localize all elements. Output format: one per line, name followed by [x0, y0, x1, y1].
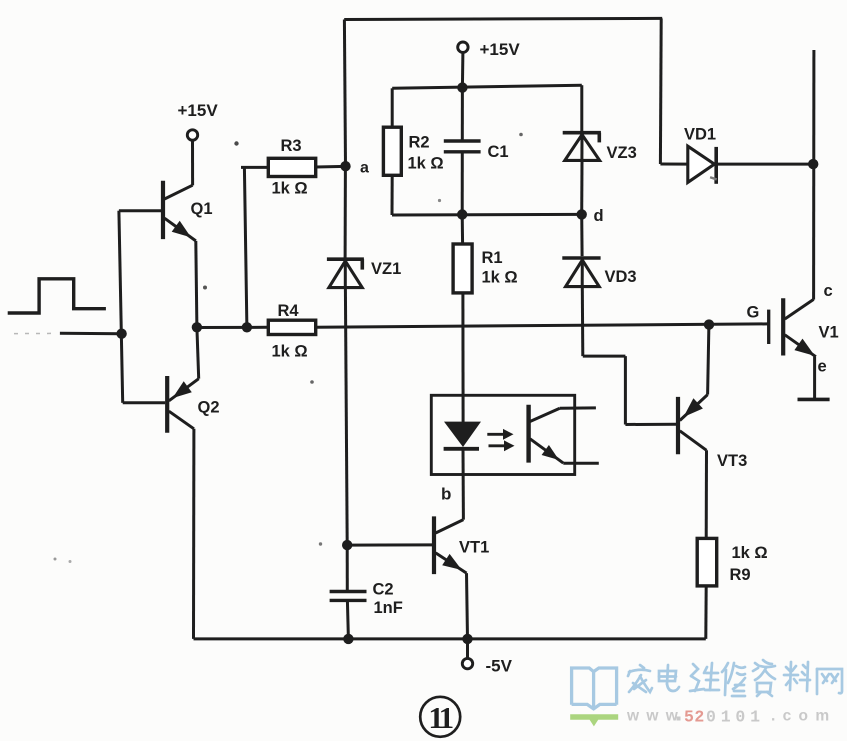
wire bus left segment	[197, 326, 269, 329]
svg-text:C1: C1	[488, 143, 509, 161]
node junction VT1/-5V on rail	[462, 634, 472, 644]
svg-text:R4: R4	[278, 302, 300, 320]
zener diode VZ1	[327, 259, 364, 287]
svg-text:. c o m: . c o m	[771, 708, 831, 725]
svg-text:b: b	[441, 485, 451, 504]
wire R1 bottom across bus to optocoupler	[461, 293, 464, 422]
speck	[234, 141, 238, 145]
svg-text:R2: R2	[409, 134, 430, 152]
speck	[519, 133, 523, 137]
wire C1 top	[461, 88, 464, 141]
wire R1 top	[461, 215, 464, 246]
wire bottom rail	[194, 637, 706, 640]
node junction Q1/Q2 on bus	[192, 322, 202, 332]
label R4	[278, 302, 300, 320]
wire C2 top	[346, 545, 349, 591]
transistor Q1	[119, 181, 196, 241]
wire R2 bottom	[391, 175, 394, 216]
wire R9 bottom to rail	[704, 585, 707, 639]
wire top horizontal rail	[344, 18, 662, 19]
label R3 value 1k ohm	[272, 180, 308, 198]
label VZ1	[371, 260, 401, 278]
wire VD3 path vertical	[624, 356, 627, 424]
label VZ3	[607, 144, 637, 162]
figure number circled 11	[420, 697, 460, 737]
watermark character wang	[817, 669, 842, 694]
wire VZ1 down to C2 node	[345, 289, 347, 545]
speck	[319, 542, 322, 545]
wire VT1 base from C2 node	[347, 543, 432, 546]
label G	[747, 304, 760, 322]
label e	[818, 358, 827, 376]
ground V1 emitter	[798, 398, 830, 402]
resistor R4	[268, 320, 315, 334]
capacitor C2	[330, 592, 367, 601]
wire +15V horizontal rail	[392, 85, 582, 88]
svg-text:R9: R9	[730, 566, 751, 584]
watermark character liao	[784, 662, 810, 691]
svg-text:VZ3: VZ3	[607, 144, 637, 162]
watermark book icon blue	[572, 668, 617, 709]
wire block bottom horizontal	[392, 213, 582, 217]
svg-text:VD1: VD1	[684, 126, 716, 144]
wire VD3 path horizontal	[583, 355, 626, 358]
svg-text:1k Ω: 1k Ω	[408, 155, 444, 173]
svg-text:1nF: 1nF	[374, 599, 403, 617]
label R1	[482, 249, 503, 267]
wire VD3 down across bus	[581, 287, 585, 356]
resistor R9	[697, 538, 717, 586]
wire VZ3 bottom to node d	[580, 162, 583, 215]
zener diode VZ3	[563, 133, 601, 161]
label a	[360, 159, 369, 176]
wire VT3 collector up to bus	[708, 325, 709, 395]
watermark character zi	[753, 660, 775, 696]
svg-text:1k Ω: 1k Ω	[272, 343, 308, 361]
label R9 value 1k ohm	[732, 544, 768, 562]
optocoupler light arrow 1	[487, 429, 513, 440]
label R3	[281, 137, 302, 155]
input pulse waveform	[8, 279, 106, 313]
label R9	[730, 566, 751, 584]
svg-text:-5V: -5V	[486, 657, 513, 676]
svg-text:1k Ω: 1k Ω	[482, 269, 518, 287]
svg-text:+15V: +15V	[178, 101, 219, 120]
node junction C2/VT1 base	[342, 540, 352, 550]
node junction C2 on rail	[343, 634, 353, 644]
wire +15V stem	[461, 53, 465, 88]
node junction R4 left	[242, 322, 252, 332]
svg-text:VT1: VT1	[459, 539, 489, 557]
speck	[54, 558, 57, 561]
label -5V	[486, 657, 513, 676]
wire VD1 cathode to right vertical	[718, 163, 814, 166]
svg-text:VZ1: VZ1	[371, 260, 401, 278]
wire VD1 anode segment	[660, 163, 688, 166]
watermark character dian	[659, 665, 679, 691]
label R2	[409, 134, 430, 152]
speck	[438, 199, 441, 202]
transistor Q2	[123, 376, 199, 433]
label R2 value 1k ohm	[408, 155, 444, 173]
svg-text:e: e	[818, 358, 827, 376]
wire input to base node	[14, 332, 122, 335]
wire right vertical from top rail down to VD1	[659, 18, 663, 164]
svg-text:Q2: Q2	[198, 399, 220, 417]
wire C2 bottom	[347, 600, 348, 639]
wire R3 right to node a	[316, 165, 346, 169]
label VD1	[684, 126, 716, 144]
svg-text:a: a	[360, 159, 369, 176]
node junction VT3 on bus	[704, 319, 714, 329]
label d	[594, 207, 604, 225]
wire R3 left + corner down	[241, 167, 268, 327]
svg-text:1k Ω: 1k Ω	[732, 544, 768, 562]
resistor R3	[268, 158, 315, 176]
wire to VT3 base	[625, 423, 676, 426]
svg-text:V1: V1	[819, 324, 839, 342]
wire LED cathode down to b	[462, 449, 465, 520]
svg-text:w w w: w w w	[626, 708, 679, 725]
label VT1	[459, 539, 489, 557]
svg-text:0101: 0101	[706, 708, 765, 727]
svg-text:Q1: Q1	[191, 200, 213, 218]
wire Q2 collector up to bus	[197, 327, 199, 378]
label b	[441, 485, 451, 504]
watermark character wei	[690, 663, 719, 691]
speck	[310, 380, 314, 384]
wire R2 top	[391, 88, 394, 128]
optocoupler light arrow 2	[489, 440, 515, 451]
wire node a down to VZ1	[344, 166, 347, 259]
watermark character xiu	[722, 663, 745, 696]
svg-text:+15V: +15V	[480, 40, 521, 59]
wire left vertical from top rail to node a	[344, 20, 345, 167]
label Q2	[198, 399, 220, 417]
wire node d down to VD3	[580, 214, 583, 256]
svg-text:R1: R1	[482, 249, 503, 267]
svg-text:1k Ω: 1k Ω	[272, 180, 308, 198]
diode VD3	[562, 258, 600, 287]
node junction C1/R1	[457, 209, 467, 219]
svg-text:C2: C2	[373, 581, 394, 599]
label C2 value 1nF	[374, 599, 403, 617]
capacitor C1	[444, 141, 481, 152]
label V1	[819, 324, 839, 342]
svg-text:VD3: VD3	[605, 268, 637, 286]
wire Q1 collector vertical	[191, 140, 194, 185]
label +15V Q1	[178, 101, 219, 120]
svg-text:52: 52	[684, 708, 705, 727]
terminal +15V center	[458, 42, 468, 52]
wire Q1 emitter down to bus	[196, 241, 197, 327]
wire -5V stem	[466, 639, 469, 659]
wire VT1 emitter down to rail	[467, 573, 468, 639]
wire VT3 emitter down to R9	[705, 450, 708, 539]
wire C1 bottom	[461, 152, 464, 215]
transistor VT1	[434, 516, 467, 574]
terminal +15V Q1	[187, 130, 197, 140]
watermark book ribbon green	[570, 714, 618, 726]
optocoupler LED	[444, 422, 481, 449]
node a	[340, 161, 350, 171]
wire bus right segment	[316, 324, 768, 327]
node junction on +15V rail	[457, 82, 467, 92]
wire V1 emitter down	[813, 357, 816, 399]
resistor R2	[383, 127, 401, 175]
svg-text:d: d	[594, 207, 604, 225]
optocoupler phototransistor	[529, 405, 599, 463]
node input junction	[116, 329, 126, 339]
terminal -5V	[462, 658, 472, 668]
label VD3	[605, 268, 637, 286]
svg-text:11: 11	[428, 700, 452, 735]
svg-text:R3: R3	[281, 137, 302, 155]
label R1 value 1k ohm	[482, 269, 518, 287]
label VT3	[717, 452, 747, 470]
transistor VT3	[678, 395, 708, 455]
optocoupler U1 box	[431, 395, 574, 474]
svg-text:VT3: VT3	[717, 452, 747, 470]
node junction VD1-right rail	[808, 159, 818, 169]
watermark character jia	[628, 665, 652, 692]
label R4 value 1k ohm	[272, 343, 308, 361]
speck	[203, 286, 207, 290]
label c	[824, 282, 833, 300]
wire VZ3 top	[580, 85, 583, 132]
wire base bus vertical Q1-Q2	[119, 211, 123, 403]
node d	[577, 209, 587, 219]
label +15V center	[480, 40, 521, 59]
speck	[710, 176, 717, 180]
IGBT V1	[769, 298, 816, 357]
wire right vertical (V1 collector feed)	[812, 50, 815, 300]
wire Q2 emitter down to bottom rail	[192, 429, 195, 639]
watermark url	[626, 708, 831, 727]
label Q1	[191, 200, 213, 218]
label C2	[373, 581, 394, 599]
diode VD1	[688, 146, 716, 184]
speck	[69, 560, 72, 563]
label C1	[488, 143, 509, 161]
svg-text:G: G	[747, 304, 760, 322]
resistor R1	[453, 244, 472, 293]
svg-text:c: c	[824, 282, 833, 300]
